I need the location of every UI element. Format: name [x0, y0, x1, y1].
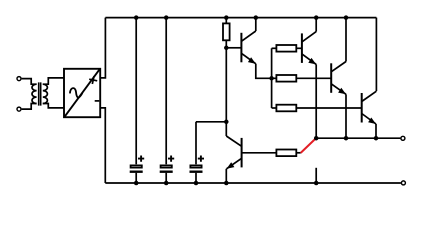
resistor R3 [276, 75, 296, 82]
wire R3 to Q3 base [296, 77, 331, 79]
junction output Q5 [374, 136, 379, 141]
wire cap C2 column [165, 18, 167, 183]
wire R3 left lead [272, 77, 277, 79]
junction bottom rail C2 [164, 181, 169, 186]
transistor Q4 [226, 136, 241, 169]
junction node A [269, 76, 274, 81]
wire Q2 emitter to output node [315, 64, 317, 138]
wire Q3 collector to rail [345, 18, 347, 62]
junction bottom rail C3 [194, 181, 199, 186]
wire output line [316, 137, 400, 139]
output terminal J3 [401, 136, 405, 140]
transistor Q3 [331, 62, 346, 95]
rectifier B1 [64, 69, 100, 117]
wire Q3 emitter to output node [345, 94, 347, 138]
wire Q4 emitter to bottom rail [225, 169, 227, 183]
junction R1 Q1 base [224, 46, 229, 51]
wire Q1 emitter to node A [256, 64, 272, 79]
wire Q5 emitter to output node [375, 124, 377, 138]
junction top rail C1 [134, 15, 139, 20]
junction output Q3 [344, 136, 349, 141]
wire R1 node down to Q4 collector node [225, 48, 227, 122]
wire R4 left lead [272, 107, 277, 109]
input terminal J2 [17, 107, 21, 111]
capacitor C1 [130, 156, 145, 172]
capacitor C3 [190, 156, 205, 172]
junction bottom rail stub [314, 181, 319, 186]
wire Q1 base lead [226, 47, 241, 49]
wire R2 to Q2 base [296, 47, 302, 49]
wire Q1 collector to rail [255, 18, 257, 31]
wire cap C3 column and link to node [195, 122, 197, 183]
wire Q2 collector to rail [315, 18, 317, 32]
resistor R5 feedback [276, 150, 296, 157]
wire R4 to Q5 base [296, 107, 361, 109]
capacitor C2 [160, 156, 175, 172]
transformer T1 [22, 78, 64, 109]
wire red feedback segment [301, 138, 316, 153]
junction top rail Q3 [344, 15, 349, 20]
wire R2 left lead [272, 47, 277, 49]
transistor Q1 [241, 31, 255, 64]
junction bottom rail Q4 [224, 181, 229, 186]
wire top rail right drop [375, 18, 377, 91]
wire rectifier minus to bottom rail [100, 108, 105, 183]
wire rectifier plus to top rail [100, 18, 105, 78]
transistor Q2 [302, 32, 316, 65]
wire cap C1 column [135, 18, 137, 183]
wire output stub [315, 168, 317, 183]
resistor R2 [276, 45, 296, 52]
resistor R1 [223, 18, 230, 48]
junction top rail Q2 [314, 15, 319, 20]
wire C3 node to R1 column [196, 121, 226, 123]
wire node A vertical [271, 48, 273, 108]
ground terminal J4 [401, 181, 405, 185]
junction bottom rail C1 [134, 181, 139, 186]
wire Q4 base lead [242, 152, 277, 154]
junction output Q2 [314, 136, 319, 141]
wire R5 right lead [296, 152, 300, 154]
junction top rail C2 [164, 15, 169, 20]
junction top rail Q1 [254, 15, 258, 20]
junction Q4 collector node [224, 120, 229, 125]
wire top rail [105, 17, 376, 19]
transistor Q5 [362, 91, 377, 124]
wire bottom rail [105, 182, 401, 184]
wire Q4 collector to node [225, 122, 227, 136]
resistor R4 [276, 105, 296, 112]
input terminal J1 [17, 77, 21, 81]
junction top rail R1 [224, 15, 229, 20]
